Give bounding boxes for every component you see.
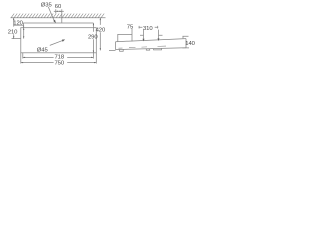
arrow drain leader <box>62 39 65 42</box>
svg-text:290: 290 <box>88 35 98 41</box>
left extension lines <box>21 53 23 64</box>
svg-text:140: 140 <box>185 41 195 47</box>
svg-text:120: 120 <box>13 21 23 27</box>
svg-text:310: 310 <box>143 26 153 32</box>
arrow leader lines to slots <box>140 30 163 40</box>
dim 310 stubs <box>139 26 159 29</box>
dim 60 line <box>54 10 64 12</box>
hidden slot lines <box>119 46 167 48</box>
arrows slot leaders <box>143 39 145 42</box>
wall line <box>11 17 106 19</box>
dim 718 line <box>23 56 94 58</box>
svg-text:Ø45: Ø45 <box>37 47 49 53</box>
labels <box>8 2 196 66</box>
arrows dim 210 <box>13 18 14 20</box>
arrows dim 420 <box>100 18 101 20</box>
svg-text:750: 750 <box>55 61 65 67</box>
arrows dim 60 <box>56 11 58 12</box>
svg-text:718: 718 <box>55 54 65 60</box>
right extension line 750 <box>95 53 97 64</box>
svg-text:75: 75 <box>127 24 134 30</box>
basin back edge line <box>24 23 94 28</box>
arrows dim 290 <box>93 23 94 25</box>
svg-text:60: 60 <box>55 4 62 10</box>
side view top edge <box>116 39 187 42</box>
counter line left of side view <box>109 50 116 52</box>
arrow tap hole leader <box>53 20 56 24</box>
arrowheads <box>13 11 159 64</box>
arrows dim 718 <box>23 57 25 58</box>
side view left edge <box>115 42 117 50</box>
basin outline plan view <box>21 28 97 53</box>
dim 120 line <box>23 25 25 38</box>
dim 750 line <box>21 62 97 64</box>
arrows dim 750 <box>21 62 23 63</box>
dim 210 line <box>13 18 15 39</box>
side view bottom edge <box>116 48 187 50</box>
arrows dim 120 <box>23 28 24 30</box>
wall hatching <box>11 14 104 18</box>
feet tabs under side view <box>120 48 162 51</box>
dim 290 line <box>92 23 94 59</box>
svg-text:210: 210 <box>8 29 18 35</box>
dim 75 bracket <box>118 29 132 42</box>
svg-text:Ø35: Ø35 <box>41 2 53 8</box>
leader line drain <box>50 40 64 45</box>
dim 420 line <box>99 18 101 51</box>
dim 120 underline <box>14 24 24 26</box>
side view right edge <box>185 39 187 48</box>
svg-text:420: 420 <box>96 28 106 34</box>
dim 60 extension lines <box>56 9 62 23</box>
dim 140 ticks <box>182 36 189 48</box>
leader line tap hole <box>48 7 54 22</box>
dim 210 cross extension <box>12 38 21 40</box>
